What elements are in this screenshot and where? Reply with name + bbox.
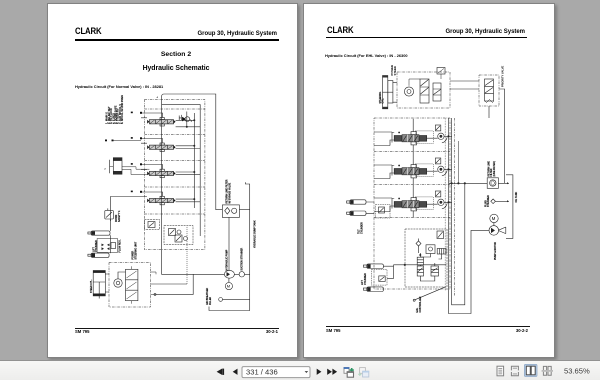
EHL valve section 2 — [374, 152, 452, 185]
svg-text:AIR BREATHER: AIR BREATHER — [206, 287, 209, 305]
wire outer pressure loop — [162, 94, 225, 274]
left page — [47, 3, 298, 358]
solenoid manifold — [405, 229, 447, 287]
EHL valve section 1 — [374, 119, 452, 152]
wire right collectors — [194, 104, 200, 236]
motor M2 — [490, 214, 498, 222]
wire inner feed — [162, 103, 201, 105]
svg-text:FLUID: FLUID — [485, 200, 487, 207]
svg-text:STEERING UNIT: STEERING UNIT — [135, 241, 137, 259]
oil tank bracket — [506, 175, 518, 239]
return line filter — [449, 161, 509, 189]
previous view icon — [344, 367, 354, 377]
steering cylinder — [380, 76, 397, 109]
svg-text:CYLINDER: CYLINDER — [361, 222, 363, 234]
right page schematic — [304, 4, 556, 360]
tilt cylinder — [347, 200, 374, 234]
svg-text:DOWN: DOWN — [116, 214, 118, 222]
svg-text:SAFETY V.: SAFETY V. — [118, 210, 121, 222]
pump P2 — [489, 223, 506, 260]
svg-text:FLOW REG.: FLOW REG. — [119, 239, 121, 252]
svg-text:FILTER: FILTER — [491, 168, 493, 176]
svg-text:PRIORITY VALVE: PRIORITY VALVE — [501, 66, 505, 87]
node return end — [154, 293, 156, 295]
down safety valve — [105, 208, 121, 222]
svg-text:4: 4 — [157, 96, 159, 99]
next page button — [317, 369, 322, 375]
wire right bus — [444, 118, 446, 291]
lift cylinder — [362, 264, 446, 292]
power steering unit — [109, 241, 151, 307]
svg-text:STEER: STEER — [393, 66, 397, 75]
prev page button — [233, 369, 238, 375]
right page — [303, 3, 555, 358]
control valve chain-dash enclosure — [145, 99, 205, 249]
svg-text:53.65%: 53.65% — [564, 367, 590, 376]
return line filter — [222, 179, 249, 217]
svg-text:RETURN LINE FILTER: RETURN LINE FILTER — [227, 179, 229, 203]
valve section 3 — [131, 163, 200, 178]
svg-text:EHL: EHL — [417, 307, 419, 312]
svg-text:CYL.: CYL. — [383, 98, 385, 104]
valve section 1 — [131, 112, 200, 128]
svg-text:STRAINER: STRAINER — [487, 195, 490, 207]
air breather — [206, 287, 250, 305]
wire return branch — [156, 274, 193, 294]
svg-text:PUMP & MOTOR: PUMP & MOTOR — [495, 242, 497, 260]
pilot line (dotted) — [186, 226, 188, 284]
svg-text:SUCTION STRAINER: SUCTION STRAINER — [241, 247, 244, 270]
fluid strainer — [485, 195, 509, 207]
svg-text:LIFT: LIFT — [362, 280, 364, 285]
orbitrol label — [390, 65, 397, 76]
two page view icon (active) — [524, 364, 537, 376]
suction strainer — [239, 247, 250, 277]
two page continuous icon — [542, 366, 553, 375]
svg-text:W/ BYPASS VALVE: W/ BYPASS VALVE — [228, 182, 231, 203]
relief valve R1 — [179, 112, 191, 127]
priority valve — [479, 66, 505, 106]
svg-text:CONTROLLER: CONTROLLER — [420, 296, 422, 312]
relief pair dashed box — [164, 226, 193, 245]
svg-text:FILLER: FILLER — [210, 297, 212, 305]
svg-text:LIFT: LIFT — [93, 247, 95, 252]
tilt lock valve — [376, 205, 391, 219]
last page button — [327, 369, 337, 375]
svg-text:2: 2 — [104, 169, 106, 171]
motor M1 — [225, 278, 232, 290]
wire psu to priority — [450, 81, 479, 89]
svg-text:CYLINDER: CYLINDER — [365, 273, 367, 285]
power steering unit box — [397, 68, 450, 109]
valve section 4 — [131, 191, 200, 205]
svg-text:TILT: TILT — [359, 229, 361, 234]
lift cylinder assembly — [88, 231, 121, 258]
legend list (rotated text block) — [105, 95, 124, 124]
svg-text:8. SPOOL W/ 2ND PRES: 8. SPOOL W/ 2ND PRES — [120, 95, 124, 124]
wire priority outputs — [489, 89, 505, 183]
next view icon (disabled) — [358, 368, 369, 377]
svg-text:M: M — [227, 284, 230, 289]
left page schematic — [48, 4, 299, 360]
page number box — [242, 367, 310, 378]
wire lift line — [111, 197, 142, 231]
svg-text:(LINE FILTER): (LINE FILTER) — [494, 161, 496, 177]
svg-text:RETURN LINE: RETURN LINE — [488, 161, 490, 177]
svg-text:HYDRAULIC PUMP: HYDRAULIC PUMP — [226, 249, 229, 270]
svg-text:CYLINDER: CYLINDER — [96, 240, 98, 252]
lever and label — [413, 287, 445, 312]
tilt cylinder — [104, 158, 149, 175]
svg-text:M: M — [492, 216, 496, 221]
port labels 2A 2B — [105, 140, 107, 142]
wire pump discharge riser — [228, 217, 230, 270]
wire psu outputs — [151, 272, 188, 294]
bottom toolbar — [0, 360, 600, 380]
svg-text:POWER: POWER — [133, 250, 135, 259]
first page button — [217, 369, 224, 375]
wire filter feed — [457, 141, 459, 183]
svg-text:HYDRAULIC SUMP TANK: HYDRAULIC SUMP TANK — [254, 220, 257, 248]
hydraulic pump P1 — [224, 249, 239, 278]
EHL valve section 3 — [374, 185, 452, 218]
section separator chain lines — [145, 109, 205, 214]
EHL valve chain enclosure — [374, 118, 450, 289]
steer cylinder — [91, 271, 109, 299]
hydraulic sump tank — [209, 182, 257, 310]
continuous view icon — [511, 366, 518, 376]
svg-text:OIL TANK: OIL TANK — [515, 192, 518, 203]
svg-text:STEER CYL.: STEER CYL. — [91, 279, 93, 293]
single page view icon — [497, 366, 504, 376]
svg-text:331 / 436: 331 / 436 — [246, 367, 278, 376]
sub check valve box — [145, 220, 160, 230]
valve section 2 — [114, 137, 201, 151]
